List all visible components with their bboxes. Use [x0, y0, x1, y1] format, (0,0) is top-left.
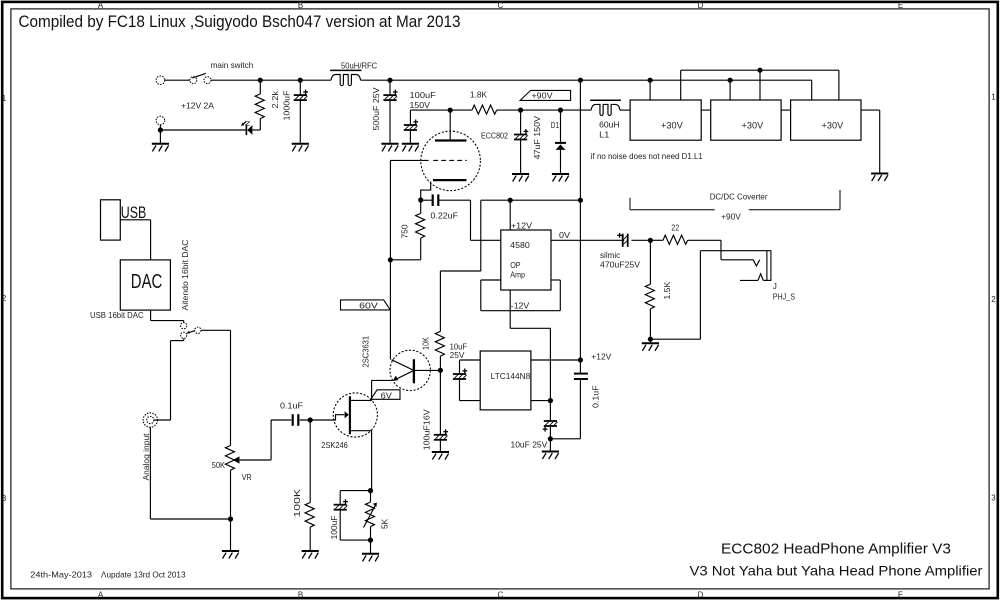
capacitor 0.22uF: [421, 194, 471, 206]
svg-text:silmic: silmic: [600, 251, 620, 260]
ground 100K: [302, 551, 319, 559]
ground 100uF: [402, 144, 419, 152]
label subtitle V3 Not Yaha: [690, 563, 983, 579]
ground 47uF: [512, 174, 529, 182]
wire 0V return: [160, 125, 245, 144]
svg-text:if no noise does not need D1.L: if no noise does not need D1.L1: [591, 152, 703, 161]
svg-text:1000uF: 1000uF: [283, 91, 292, 121]
label +12V 2A: [181, 102, 215, 111]
svg-text:3: 3: [991, 494, 996, 503]
capacitor 100uF16V: [434, 370, 448, 452]
wire diode to resistor: [252, 119, 260, 130]
junction 47uF top: [518, 108, 523, 113]
svg-text:1: 1: [991, 93, 996, 102]
svg-text:C: C: [498, 591, 504, 600]
label main switch: [211, 61, 254, 70]
wire 0.22uF to opamp input: [471, 200, 501, 240]
junction source node: [368, 488, 373, 493]
svg-text:4580: 4580: [510, 241, 530, 250]
junction LTC +12V: [578, 357, 583, 362]
diode input protection: [241, 120, 252, 135]
label 50uH/RFC: [341, 61, 377, 70]
wire +12V distribution x580: [579, 80, 581, 360]
label 750: [401, 224, 410, 238]
label silmic 470uF25V: [600, 251, 641, 270]
svg-text:main switch: main switch: [211, 61, 254, 70]
label 100uF16V: [423, 409, 432, 451]
svg-text:A: A: [98, 1, 104, 10]
label date: [30, 570, 185, 580]
junction module2 feed: [728, 78, 733, 83]
svg-text:2: 2: [2, 294, 7, 303]
svg-text:+30V: +30V: [661, 120, 683, 130]
svg-text:+90V: +90V: [721, 213, 741, 222]
IC U3 LTC144N8: [480, 351, 531, 410]
svg-text:Amp: Amp: [510, 271, 525, 280]
svg-text:B: B: [298, 1, 303, 10]
wire DAC to selector: [151, 310, 184, 322]
svg-text:3: 3: [2, 494, 7, 503]
svg-text:22: 22: [671, 224, 679, 233]
label ECC802: [481, 131, 508, 140]
wire switch to rail: [211, 79, 331, 81]
label if no noise note: [591, 152, 703, 161]
resistor 750: [390, 200, 424, 260]
label 10K: [422, 337, 431, 350]
svg-text:V3 Not Yaha but Yaha Head Phon: V3 Not Yaha but Yaha Head Phone Amplifie…: [690, 563, 983, 579]
label -12V: [511, 301, 530, 310]
resistor 10K: [435, 331, 444, 370]
svg-text:+30V: +30V: [742, 120, 764, 130]
svg-text:J: J: [773, 282, 777, 291]
transistor Q2 2SK246: [328, 393, 377, 437]
junction sub rail x580: [578, 198, 583, 203]
ground 100uF16V: [432, 452, 449, 460]
junction grid node: [388, 257, 393, 262]
label USB 16bit DAC: [90, 311, 144, 320]
svg-text:E: E: [898, 1, 903, 10]
svg-text:+12V 2A: +12V 2A: [181, 102, 215, 111]
svg-text:E: E: [898, 591, 903, 600]
wire terminal to switch: [165, 79, 190, 81]
wire source to 5K: [371, 431, 373, 491]
label 100uF bypass: [330, 516, 339, 540]
label 47uF 150V: [533, 115, 542, 159]
svg-text:0.22uF: 0.22uF: [431, 212, 459, 221]
flag 6V: [371, 390, 400, 401]
capacitor 500uF 25V: [383, 80, 397, 144]
svg-text:DAC: DAC: [131, 271, 163, 293]
capacitor 10uF 25V out: [543, 401, 558, 439]
label 0.1uF rail: [592, 385, 601, 408]
label VR: [242, 473, 252, 482]
svg-text:L1: L1: [599, 131, 610, 140]
inductor L1 60uH: [590, 100, 621, 115]
capacitor 47uF 150V: [514, 110, 528, 174]
svg-text:USB 16bit DAC: USB 16bit DAC: [90, 311, 144, 320]
transistor Q1 2SC3631: [372, 350, 441, 390]
wire module interconnects: [701, 109, 790, 111]
svg-text:100uF16V: 100uF16V: [423, 409, 432, 451]
label 60uH L1: [599, 121, 619, 140]
wire +12V feed to modules: [650, 80, 730, 100]
DAC module: [120, 260, 170, 310]
wire emitter to drain: [371, 380, 373, 400]
DC/DC module 2 +30V: [711, 100, 781, 140]
junction upper rail: [757, 68, 762, 73]
svg-text:47uF 150V: 47uF 150V: [533, 115, 542, 159]
wire feedback loop: [481, 280, 561, 311]
svg-text:470uF25V: 470uF25V: [600, 261, 641, 270]
opamp U2 4580: [501, 200, 551, 290]
resistor 1.5K: [645, 240, 654, 339]
junction jack ground: [648, 337, 653, 342]
ground 5K: [362, 540, 379, 561]
svg-text:B: B: [298, 591, 303, 600]
terminal 0V input: [156, 116, 165, 125]
junction base node: [438, 368, 443, 373]
junction gate node: [308, 417, 313, 422]
svg-text:0.1uF: 0.1uF: [280, 401, 303, 410]
label 10uF 25V out: [511, 440, 548, 449]
svg-text:500uF 25V: 500uF 25V: [372, 87, 381, 131]
resistor 100K: [305, 420, 314, 551]
ground input: [152, 144, 169, 152]
svg-text:50K: 50K: [212, 461, 226, 470]
junction 2.2k top: [258, 78, 263, 83]
label title: [19, 13, 461, 31]
junction 5K bottom: [368, 538, 373, 543]
wire +12V top rail: [361, 80, 812, 100]
wire LTC out pin: [531, 400, 551, 402]
potentiometer VR 50K: [225, 446, 271, 552]
svg-text:Compiled by FC18 Linux ,Suigyo: Compiled by FC18 Linux ,Suigyodo Bsch047…: [19, 13, 461, 31]
wire wiper to cap: [271, 420, 291, 460]
DC/DC module 1 +30V: [630, 100, 701, 140]
svg-text:+12V: +12V: [591, 352, 612, 361]
label Aitendo 16bit DAC: [181, 239, 190, 310]
RCA jack analog input: [143, 413, 170, 427]
svg-text:6V: 6V: [381, 391, 393, 400]
label 22: [671, 224, 679, 233]
svg-text:ECC802: ECC802: [481, 131, 508, 140]
svg-text:OP: OP: [510, 261, 521, 270]
ground 1000uF: [292, 144, 309, 152]
svg-text:0V: 0V: [559, 231, 571, 240]
svg-text:100K: 100K: [293, 488, 302, 517]
capacitor 0.1uF rail: [550, 360, 588, 439]
svg-text:Aitendo 16bit DAC: Aitendo 16bit DAC: [181, 239, 190, 310]
svg-text:50uH/RFC: 50uH/RFC: [341, 61, 377, 70]
junction D1 top: [558, 108, 563, 113]
svg-text:10K: 10K: [422, 337, 431, 350]
wire module3 to ground: [861, 110, 880, 173]
svg-text:1: 1: [2, 94, 7, 103]
label 100uF 150V: [410, 91, 436, 110]
label 100K: [293, 488, 302, 517]
svg-text:VR: VR: [242, 473, 252, 482]
wire upper module rail: [681, 70, 839, 100]
label 5K: [381, 518, 390, 529]
label title ECC802 HeadPhone Amplifier V3: [721, 542, 951, 558]
svg-text:D: D: [698, 1, 704, 10]
svg-text:1.5K: 1.5K: [663, 281, 672, 299]
svg-text:1.8K: 1.8K: [470, 91, 488, 100]
junction 500uF top: [387, 78, 392, 83]
ground pot: [222, 551, 239, 559]
jack J PHJ_S: [650, 240, 771, 339]
wire USB to DAC: [120, 220, 150, 260]
label 1000uF: [283, 91, 292, 121]
svg-text:PHJ_S: PHJ_S: [773, 292, 796, 301]
label 500uF 25V: [372, 87, 381, 131]
wire selector to pot: [201, 330, 231, 445]
wire LTC +12V pin: [531, 359, 581, 361]
junction 1000uF top: [298, 78, 303, 83]
svg-text:60uH: 60uH: [599, 121, 619, 130]
svg-text:10uF 25V: 10uF 25V: [511, 440, 548, 449]
main switch: [190, 73, 211, 83]
junction plate node: [448, 108, 453, 113]
svg-text:+30V: +30V: [822, 120, 844, 130]
ground DC/DC: [871, 174, 888, 182]
junction pot bottom: [228, 516, 233, 521]
wire RCA shield: [150, 427, 230, 519]
label J PHJ_S: [773, 282, 796, 302]
svg-text:Λupdate 13rd Oct 2013: Λupdate 13rd Oct 2013: [101, 570, 186, 580]
label 1.8K: [470, 91, 488, 100]
label 0.22uF: [431, 212, 459, 221]
label +12V opamp: [511, 221, 533, 230]
wire analog to selector: [171, 339, 184, 421]
junction 10uF bottom: [548, 436, 553, 441]
DC/DC module 3 +30V: [791, 100, 861, 140]
svg-text:-12V: -12V: [511, 301, 530, 310]
terminal +12V input: [156, 76, 165, 85]
svg-text:LTC144N8: LTC144N8: [491, 372, 531, 381]
ground 1.5K: [642, 339, 659, 351]
wire grid 60V line: [389, 160, 391, 359]
junction +12V rail x580: [578, 78, 583, 83]
label 2SC3631: [362, 336, 371, 368]
wire -12V supply: [510, 290, 550, 401]
svg-text:D: D: [698, 591, 704, 600]
svg-text:C: C: [498, 1, 504, 10]
ground D1: [552, 174, 569, 182]
resistor 22: [650, 235, 721, 244]
svg-text:z: z: [245, 120, 252, 127]
selector switch: [181, 323, 202, 339]
svg-text:A: A: [98, 591, 104, 600]
svg-text:Analog input: Analog input: [142, 433, 151, 481]
junction 0V terminal: [158, 127, 163, 132]
flag 60V: [341, 300, 391, 311]
capacitor 0.1uF input: [293, 414, 328, 426]
capacitor 10uF 25V pump: [453, 360, 480, 401]
svg-text:D1: D1: [551, 121, 560, 130]
junction opamp supply: [508, 198, 513, 203]
label +12V LTC: [591, 352, 612, 361]
capacitor 100uF 150V: [404, 110, 418, 144]
svg-text:25V: 25V: [450, 351, 465, 360]
label 2SK246: [321, 441, 348, 450]
potentiometer 5K: [364, 491, 377, 540]
svg-text:2SC3631: 2SC3631: [362, 336, 371, 368]
resistor 2.2k: [255, 80, 264, 118]
ground 500uF: [381, 144, 398, 152]
svg-text:10uF: 10uF: [450, 342, 467, 351]
flag +90V: [520, 90, 570, 100]
capacitor silmic 470uF 25V: [617, 233, 628, 247]
svg-text:5K: 5K: [381, 518, 390, 529]
svg-text:DC/DC Coverter: DC/DC Coverter: [710, 193, 768, 202]
svg-text:2: 2: [991, 295, 996, 304]
label 2.2k: [271, 90, 280, 109]
svg-text:+90V: +90V: [532, 91, 554, 100]
junction output node: [648, 238, 653, 243]
capacitor 100uF bypass: [334, 491, 371, 540]
wire output 0V: [551, 239, 650, 241]
bracket DC/DC Coverter +90V: [630, 190, 840, 222]
label Analog input: [142, 433, 151, 481]
svg-text:+12V: +12V: [511, 221, 533, 230]
svg-text:750: 750: [401, 224, 410, 238]
label 0V: [559, 231, 571, 240]
label 0.1uF input: [280, 401, 303, 410]
svg-text:24th-May-2013: 24th-May-2013: [30, 570, 92, 580]
junction cathode node: [418, 197, 423, 202]
svg-text:ECC802 HeadPhone Amplifier V3: ECC802 HeadPhone Amplifier V3: [721, 542, 951, 558]
svg-text:0.1uF: 0.1uF: [592, 385, 601, 408]
junction module1 feed: [648, 78, 653, 83]
svg-text:2.2k: 2.2k: [271, 90, 280, 109]
svg-text:2SK246: 2SK246: [321, 441, 348, 450]
USB connector: [101, 200, 147, 240]
svg-text:60V: 60V: [359, 301, 378, 310]
diode D1: [555, 110, 566, 174]
capacitor 1000uF: [294, 80, 308, 144]
label 10uF 25V pump: [450, 342, 467, 360]
label D1: [551, 121, 560, 130]
svg-text:100uF: 100uF: [330, 516, 339, 540]
inductor RFC 50uH: [330, 70, 361, 85]
label 50K: [212, 461, 226, 470]
svg-text:100uF: 100uF: [410, 91, 436, 100]
wire +90V rail: [410, 109, 630, 111]
svg-text:150V: 150V: [410, 101, 431, 110]
resistor 1.8K: [472, 105, 497, 114]
wire +12V sub rail: [440, 200, 580, 331]
junction LTC out: [548, 398, 553, 403]
tube U1 ECC802: [390, 110, 480, 200]
ground 10uF: [542, 439, 559, 459]
label 1.5K: [663, 281, 672, 299]
